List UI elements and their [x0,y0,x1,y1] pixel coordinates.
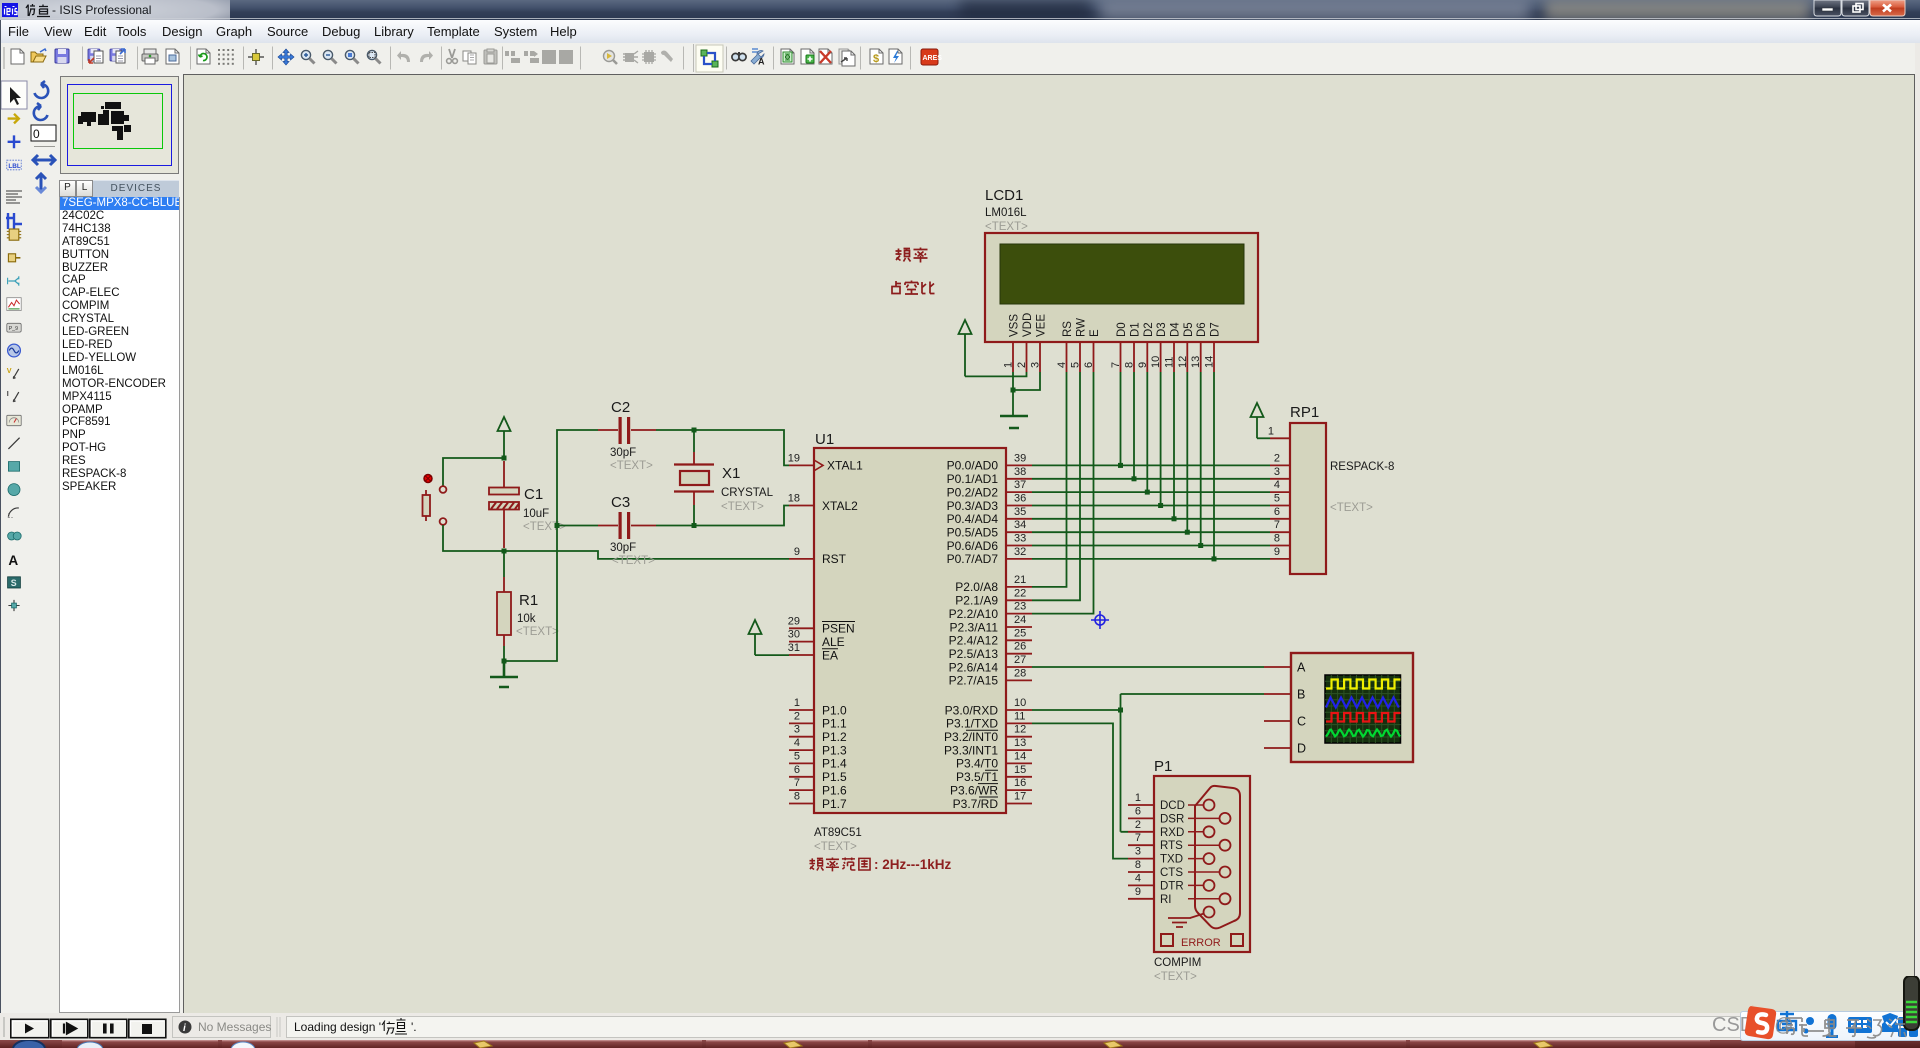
junctions D lines on P0 bus [1118,463,1217,562]
wire autorouter (active) [696,45,723,72]
svg-text:D: D [1297,742,1306,756]
svg-text:ERROR: ERROR [1181,937,1221,949]
svg-text:P2.5/A13: P2.5/A13 [949,647,999,661]
svg-text:6: 6 [1274,506,1280,518]
svg-text:16: 16 [1014,777,1026,789]
svg-text:No Messages: No Messages [198,1020,271,1034]
wires LCD data D0-D7 down to P0 bus [1121,372,1215,559]
wire R1 bottom [503,646,505,661]
ARES [921,49,942,65]
svg-text:<TEXT>: <TEXT> [612,555,655,567]
svg-text:4: 4 [1274,479,1280,491]
svg-text:P2.3/A11: P2.3/A11 [950,620,999,634]
wires P0 bus to RP1 [1032,465,1270,559]
svg-text:I: I [7,389,9,398]
LCD pin numbers [1003,356,1216,368]
svg-text:U1: U1 [815,431,834,448]
svg-text:1: 1 [1135,792,1141,804]
svg-text:25: 25 [1014,627,1026,639]
print [142,49,158,64]
wire C3 left [557,525,598,527]
svg-text:$: $ [873,53,879,65]
svg-text:RTS: RTS [1160,840,1183,852]
oscilloscope [1264,653,1413,762]
svg-text:27: 27 [1014,654,1026,666]
svg-text:D3: D3 [1156,322,1168,337]
indicator squares + ERROR [1161,934,1173,946]
grip [3,47,5,69]
junction P3.0 [1118,708,1123,713]
svg-text:P3.5/T1: P3.5/T1 [956,770,998,784]
svg-text:A: A [1297,661,1306,675]
respack RP1 RESPACK-8 [1268,404,1394,574]
svg-text:<TEXT>: <TEXT> [523,521,566,533]
svg-text:C: C [1297,715,1306,729]
window buttons [1813,0,1908,19]
svg-text:<TEXT>: <TEXT> [1154,971,1197,983]
svg-text:12: 12 [1177,356,1189,368]
wire VEE [1013,372,1040,390]
svg-text:31: 31 [788,642,800,654]
svg-text:<TEXT>: <TEXT> [610,460,653,472]
svg-text:7: 7 [1135,832,1141,844]
svg-text:P1.2: P1.2 [822,730,847,744]
svg-text:P0.0/AD0: P0.0/AD0 [947,459,999,473]
svg-text:A: A [8,553,18,568]
device list [59,197,180,1013]
svg-text:P0.4/AD4: P0.4/AD4 [947,512,999,526]
power terminal (RP1) [1251,403,1264,438]
svg-text:V: V [7,366,12,375]
goto sheet [839,49,855,66]
svg-text:1: 1 [1268,425,1274,437]
cut copy paste [447,49,458,63]
svg-text:PSEN: PSEN [822,622,855,636]
waveform red square [1326,713,1401,722]
svg-text:P3.0/RXD: P3.0/RXD [945,703,999,717]
svg-text:7: 7 [1274,519,1280,531]
overview minimap [60,76,179,174]
ground (P1 shield) [1168,914,1204,928]
svg-text:: 2Hz---1kHz: : 2Hz---1kHz [874,857,952,872]
svg-text:30pF: 30pF [610,542,636,554]
svg-text:8: 8 [794,791,800,803]
svg-text:VDD: VDD [1022,313,1034,337]
svg-text:P0.6/AD6: P0.6/AD6 [947,539,999,553]
svg-text:4: 4 [1056,362,1068,368]
svg-text:28: 28 [1014,667,1026,679]
svg-text:1: 1 [794,697,800,709]
svg-text:P1.6: P1.6 [822,783,847,797]
svg-text:6: 6 [794,764,800,776]
svg-text:18: 18 [788,493,800,505]
crystal X1 [674,430,774,523]
svg-text:36: 36 [1014,493,1026,505]
LCD pin stubs [1013,342,1214,372]
仿真 glyphs [382,1018,407,1035]
ground (LCD) [1000,416,1028,428]
waveform yellow square [1326,680,1401,689]
svg-text:5: 5 [1070,362,1082,368]
ERC [889,49,902,64]
svg-text:P0.3/AD3: P0.3/AD3 [947,499,999,513]
svg-text:9: 9 [794,546,800,558]
svg-text:13: 13 [1014,737,1026,749]
undo / redo (disabled) [397,51,410,62]
svg-text:P1.5: P1.5 [822,770,847,784]
svg-text:C1: C1 [524,486,543,503]
svg-text:9: 9 [1135,886,1141,898]
origin marker [1091,611,1109,629]
svg-text:8: 8 [1135,859,1141,871]
zoom out [323,50,336,63]
svg-text:XTAL1: XTAL1 [827,459,863,473]
pick parts etc [604,51,618,65]
open [31,49,46,62]
svg-text:2: 2 [1274,452,1280,464]
svg-text:RS: RS [1062,321,1074,337]
svg-text:<TEXT>: <TEXT> [814,841,857,853]
LCD screen [1000,244,1244,304]
wire reset top [443,458,504,486]
svg-text:P1.3: P1.3 [822,743,847,757]
svg-text:D0: D0 [1116,322,1128,337]
svg-text:13: 13 [1190,356,1202,368]
power terminal (LCD VDD) [959,320,972,376]
label 占空比 [892,281,935,295]
zoom in [301,50,314,63]
svg-text:P1.1: P1.1 [822,717,847,731]
svg-text:3: 3 [1274,466,1280,478]
svg-text:14: 14 [1204,356,1216,368]
svg-text:24: 24 [1014,614,1026,626]
svg-text:7: 7 [1110,362,1122,368]
svg-text:C2: C2 [611,399,630,416]
label 频率 [896,248,928,263]
svg-text:P3.1/TXD: P3.1/TXD [946,717,998,731]
svg-text:P0.2/AD2: P0.2/AD2 [947,485,999,499]
svg-text:D5: D5 [1183,322,1195,337]
svg-text:19: 19 [788,452,800,464]
svg-text:CTS: CTS [1160,867,1183,879]
svg-text:RW: RW [1076,318,1088,337]
svg-text:R1: R1 [519,592,538,609]
svg-text:B: B [1297,688,1305,702]
svg-text:10uF: 10uF [523,508,549,520]
property tool [751,49,765,67]
pan [278,49,294,65]
DB9 pin circles [1204,800,1231,918]
svg-text:RP1: RP1 [1290,404,1319,421]
wire C2 to XTAL1 [656,430,789,465]
svg-text:COMPIM: COMPIM [1154,957,1201,969]
svg-text:8: 8 [1124,362,1136,368]
svg-text:21: 21 [1014,574,1026,586]
svg-text:S: S [11,578,17,588]
wire C3 to XTAL2 [656,506,789,526]
svg-text:D6: D6 [1196,322,1208,337]
LCD pin names [1009,313,1222,337]
svg-text:LM016L: LM016L [985,207,1027,219]
svg-text:2: 2 [1016,362,1028,368]
zoom 100 [345,50,358,63]
svg-text:10: 10 [1150,356,1162,368]
svg-text:2: 2 [794,710,800,722]
svg-text:P2.6/A14: P2.6/A14 [949,660,999,674]
chip U1 AT89C51 [788,431,1032,853]
svg-text:P2.4/A12: P2.4/A12 [949,634,999,648]
svg-text:P1.4: P1.4 [822,757,847,771]
svg-text:D7: D7 [1210,322,1222,337]
wires LCD RS/RW/E down to P2 [1032,372,1094,614]
import section [88,49,103,63]
svg-text:5: 5 [1274,493,1280,505]
resistor R1 10k [497,551,559,646]
new [11,49,24,64]
svg-text:DTR: DTR [1160,880,1184,892]
svg-text:A: A [758,57,765,67]
svg-text:CRYSTAL: CRYSTAL [721,487,774,499]
svg-text:30: 30 [788,629,800,641]
wire P2.6 to scope A [1032,666,1264,668]
svg-text:VSS: VSS [1009,314,1021,337]
svg-text:8: 8 [1274,533,1280,545]
svg-text:3: 3 [1135,846,1141,858]
svg-text:D2: D2 [1143,322,1155,337]
wire P3.1 to TXD [1032,723,1128,858]
svg-text:1: 1 [1003,362,1015,368]
svg-text:P3.7/RD: P3.7/RD [953,797,999,811]
junction crystal top [692,428,697,433]
wire VDD [965,372,1027,376]
svg-text:2: 2 [1135,819,1141,831]
waveform green sine [1326,730,1400,737]
junction ground node [502,659,507,664]
svg-text:ALE: ALE [822,635,845,649]
svg-text:P1.0: P1.0 [822,703,847,717]
wire RST to U1 [504,551,789,559]
svg-text:i: i [183,1023,186,1034]
svg-text:38: 38 [1014,466,1026,478]
svg-text:RST: RST [822,552,847,566]
design explorer [781,49,794,64]
svg-text:15: 15 [1014,764,1026,776]
svg-text:9: 9 [1274,546,1280,558]
wire VSS down [1012,372,1014,415]
svg-text:37: 37 [1014,479,1026,491]
svg-text:ARES: ARES [923,55,943,62]
U1 left pin names [822,459,863,811]
svg-text:P3.2/INT0: P3.2/INT0 [944,730,998,744]
svg-text:AT89C51: AT89C51 [814,827,862,839]
wire EA [755,654,789,656]
DB9 outline [1195,786,1240,928]
svg-text:39: 39 [1014,452,1026,464]
scope screen [1325,675,1401,743]
svg-text:DSR: DSR [1160,813,1184,825]
U1 right pin stubs [1006,465,1032,803]
svg-text:P_9: P_9 [9,326,18,332]
separators [83,44,911,72]
refresh [197,49,210,64]
U1 left pin stubs [789,465,814,803]
svg-text:<TEXT>: <TEXT> [1330,502,1373,514]
svg-text:Loading design ': Loading design ' [294,1020,381,1034]
wire RP1 pin1 [1257,437,1270,439]
svg-text:33: 33 [1014,533,1026,545]
svg-text:P1: P1 [1154,758,1172,775]
svg-text:'.: '. [411,1020,417,1034]
DB9 pin link lines [1188,805,1220,899]
power terminal (reset net) [498,417,511,458]
zoom area [367,50,380,63]
svg-text:4: 4 [794,737,800,749]
svg-text:30pF: 30pF [610,447,636,459]
svg-text:P2.1/A9: P2.1/A9 [955,594,998,608]
svg-text:9: 9 [1137,362,1149,368]
svg-text:RESPACK-8: RESPACK-8 [1330,461,1394,473]
svg-text:35: 35 [1014,506,1026,518]
svg-text:P1.7: P1.7 [822,797,847,811]
svg-text:RI: RI [1160,894,1172,906]
svg-text:12: 12 [1014,724,1026,736]
wire button bottom [443,525,504,551]
svg-text:<TEXT>: <TEXT> [516,626,559,638]
mark print area [166,49,179,64]
svg-text:E: E [1089,329,1101,337]
svg-text:4: 4 [1135,872,1141,884]
svg-text:P2.2/A10: P2.2/A10 [949,607,999,621]
button (reset) [423,475,447,525]
svg-text:XTAL2: XTAL2 [822,499,858,513]
svg-text:26: 26 [1014,641,1026,653]
svg-text:11: 11 [1014,710,1025,722]
connector P1 COMPIM [1128,758,1250,983]
search [732,53,746,61]
capacitor C3 30pF [598,494,656,567]
svg-text:LBL: LBL [8,163,21,170]
svg-text:32: 32 [1014,546,1026,558]
svg-text:EA: EA [822,648,838,662]
BOM [870,49,883,65]
svg-text:<TEXT>: <TEXT> [985,221,1028,233]
svg-text:P0.5/AD5: P0.5/AD5 [947,526,999,540]
junction C3 left [555,523,560,528]
svg-text:VEE: VEE [1036,314,1048,337]
svg-text:<TEXT>: <TEXT> [721,501,764,513]
svg-text:34: 34 [1014,519,1026,531]
origin [248,49,264,65]
junction RST node [502,549,507,554]
capacitor C1 10uF [489,461,566,548]
svg-text:22: 22 [1014,587,1026,599]
svg-text:RXD: RXD [1160,827,1184,839]
svg-text:7: 7 [794,777,800,789]
wire ground net riser [504,430,598,661]
svg-text:P3.6/WR: P3.6/WR [950,783,998,797]
junction VSS/VEE [1011,388,1016,393]
U1 pin numbers [788,452,800,802]
wire P3.0 net [1032,694,1264,832]
svg-text:D4: D4 [1170,322,1182,337]
svg-text:P3.4/T0: P3.4/T0 [956,757,998,771]
junction reset top [502,456,507,461]
svg-text:3: 3 [1030,362,1042,368]
power terminal (EA) [749,620,762,655]
svg-text:29: 29 [788,615,800,627]
svg-text:17: 17 [1014,791,1026,803]
svg-text:6: 6 [1135,805,1141,817]
svg-text:11: 11 [1164,357,1176,368]
junction crystal bottom [692,523,697,528]
waveform blue triangle [1326,698,1399,708]
svg-text:5: 5 [794,750,800,762]
new sheet [801,49,814,64]
grid [218,49,234,65]
svg-text:10: 10 [1014,697,1026,709]
svg-text:DCD: DCD [1160,800,1185,812]
svg-text:C3: C3 [611,494,630,511]
LCD LCD1 LM016L [985,187,1258,372]
svg-text:X1: X1 [722,465,740,482]
svg-text:P0.7/AD7: P0.7/AD7 [947,552,999,566]
ground (reset) [490,661,518,687]
rotate / mirror controls [28,74,60,204]
svg-text:P3.3/INT1: P3.3/INT1 [944,743,998,757]
svg-text:6: 6 [1083,362,1095,368]
U1 right pin names [944,459,998,811]
svg-text:10k: 10k [517,613,536,625]
label 频率范围：2Hz---1kHz [809,857,870,871]
svg-text:TXD: TXD [1160,854,1183,866]
capacitor C2 30pF [598,399,656,472]
svg-text:LCD1: LCD1 [985,187,1023,204]
remove sheet [819,49,832,64]
save [55,49,69,63]
block ops (disabled gray) [505,49,573,65]
svg-text:23: 23 [1014,601,1026,613]
svg-text:P2.7/A15: P2.7/A15 [949,674,999,688]
IME bar + CSDN watermark [1740,1011,1920,1041]
svg-text:P2.0/A8: P2.0/A8 [955,580,998,594]
svg-text:P0.1/AD1: P0.1/AD1 [947,472,999,486]
svg-text:0: 0 [33,127,40,141]
P L DEVICES [59,180,76,197]
svg-text:D1: D1 [1130,322,1142,337]
svg-text:3: 3 [794,724,800,736]
svg-text:14: 14 [1014,750,1026,762]
pin XTAL1 clock chevron [814,460,823,471]
